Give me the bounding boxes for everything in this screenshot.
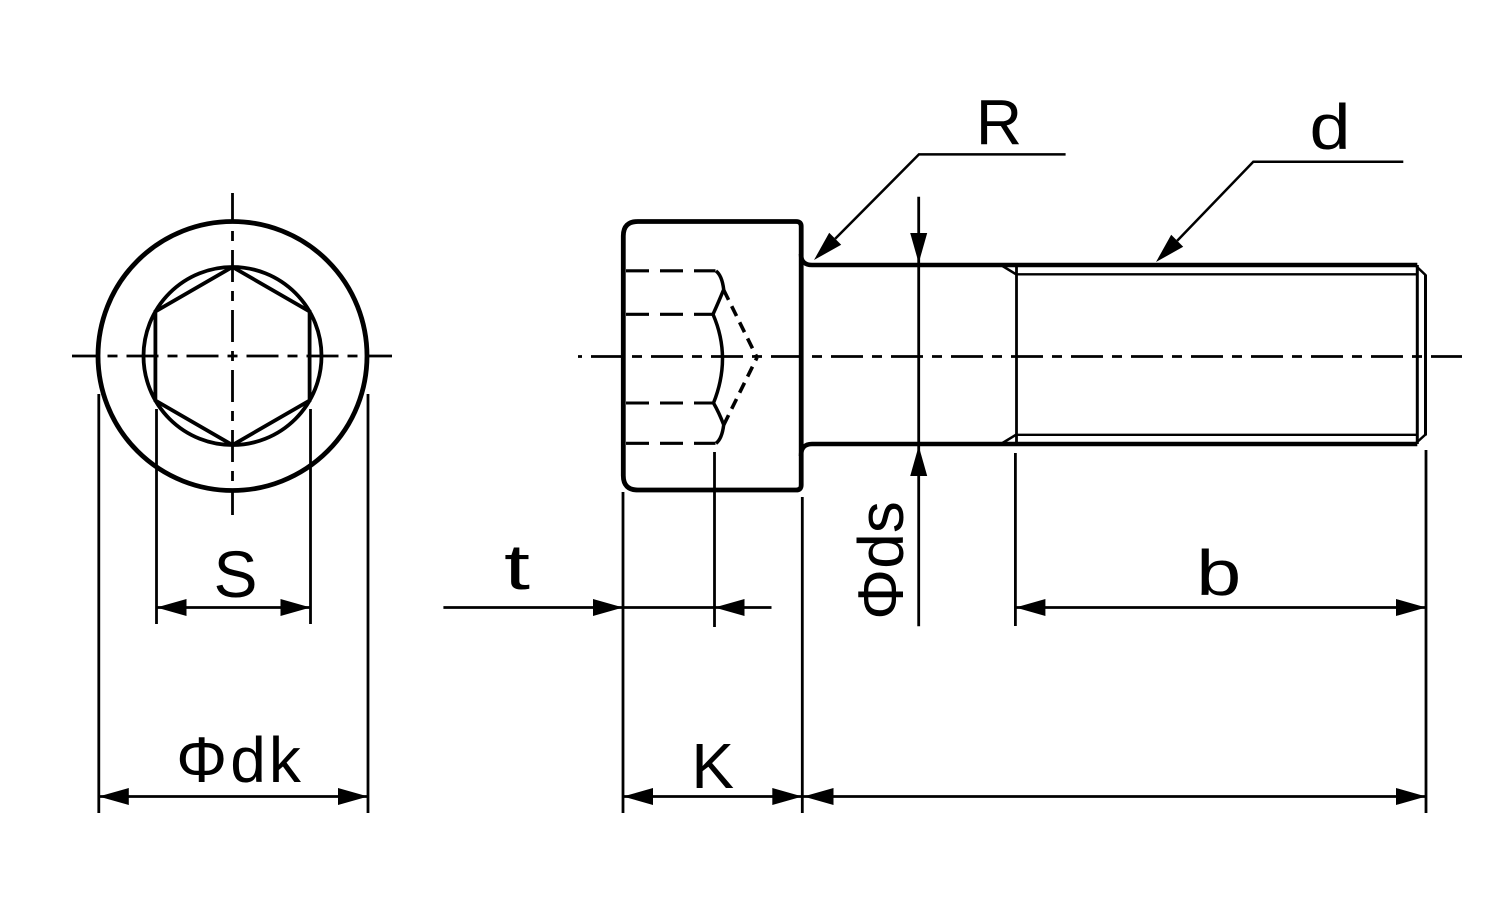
dimension phi-dk line: [99, 795, 368, 798]
side view: thread end top chamfer: [1415, 265, 1426, 275]
side view: thread end bottom chamfer: [1415, 435, 1426, 445]
extension line S left: [155, 409, 158, 624]
extension line thread start: [1014, 453, 1017, 626]
hidden socket line bottom inner: [626, 401, 714, 404]
dimension K line: [623, 795, 802, 798]
extension line dk left: [97, 394, 100, 813]
dimension S line: [157, 606, 311, 609]
hidden cone bottom edge: [724, 358, 757, 426]
side view: thread start vertical line: [1015, 265, 1018, 444]
socket bottom arc bottom: [714, 403, 724, 443]
extension line thread end: [1425, 450, 1428, 813]
hidden socket line top inner: [626, 313, 713, 316]
side view: top fillet R and shank/thread major top line: [801, 254, 1417, 265]
front view: hex socket: [155, 267, 309, 445]
leader R: arrowhead at fillet: [814, 233, 841, 260]
hidden cone top edge: [724, 290, 757, 358]
svg-text:Φdk: Φdk: [176, 724, 304, 796]
side view: thread minor top line: [1017, 273, 1418, 275]
dimension S left arrow: [157, 599, 187, 616]
svg-text:t: t: [504, 531, 530, 603]
front view: socket chamfer circle: [144, 267, 322, 445]
socket bottom arc top: [713, 271, 724, 314]
front view: horizontal centerline: [72, 355, 392, 358]
extension line dk right: [367, 394, 370, 813]
dimension b right arrow: [1396, 599, 1426, 616]
svg-text:b: b: [1196, 537, 1241, 609]
dimension K left arrow: [623, 788, 653, 805]
dimension t right-pointing arrow: [593, 599, 623, 616]
leader R: diagonal and tail: [835, 154, 1065, 238]
dimension t line left part: [443, 606, 623, 609]
dimension phi-ds up arrow: [910, 446, 927, 476]
dimension K right arrow: [772, 788, 802, 805]
svg-text:Φds: Φds: [845, 501, 917, 620]
extension line head right face: [801, 497, 804, 813]
dimension phi-dk right arrow: [338, 788, 368, 805]
side view: head outline: [623, 222, 801, 491]
leader d: diagonal and tail: [1177, 162, 1403, 241]
svg-text:d: d: [1310, 91, 1351, 163]
leader d: arrowhead at thread: [1156, 235, 1183, 262]
side view: thread start top chamfer: [1003, 266, 1017, 275]
dimension shaft length line: [804, 795, 1427, 798]
front view: head outer circle (dk): [98, 222, 367, 491]
svg-text:R: R: [976, 86, 1022, 158]
extension line head left face: [622, 492, 625, 813]
svg-text:S: S: [213, 537, 257, 611]
dimension phi-ds down arrow: [910, 233, 927, 263]
dimension t connector: [623, 606, 715, 609]
svg-text:K: K: [691, 730, 734, 802]
dimension S right arrow: [281, 599, 311, 616]
front view: vertical centerline: [231, 193, 234, 515]
side view: bottom fillet and shank/thread major bottom line: [801, 444, 1417, 456]
side view: thread minor bottom line: [1017, 434, 1418, 436]
hidden socket line top outer: [626, 269, 716, 272]
side view: thread end inner vertical: [1416, 265, 1419, 444]
dimension phi-ds vertical line: [917, 197, 920, 627]
side view: thread end face vertical: [1424, 275, 1427, 436]
dimension t left-pointing arrow with tail: [715, 599, 745, 616]
side view: horizontal centerline: [578, 355, 1462, 358]
dimension phi-dk left arrow: [99, 788, 129, 805]
dimension shaft length right arrow: [1396, 788, 1426, 805]
hidden socket line bottom outer: [626, 442, 716, 445]
socket bottom arc middle: [713, 314, 723, 403]
dimension b left arrow: [1015, 599, 1045, 616]
dimension shaft length left arrow: [804, 788, 834, 805]
extension line S right: [309, 409, 312, 624]
extension line socket bottom: [713, 452, 716, 627]
side view: thread start bottom chamfer: [1003, 435, 1017, 444]
dimension b line: [1015, 606, 1426, 609]
